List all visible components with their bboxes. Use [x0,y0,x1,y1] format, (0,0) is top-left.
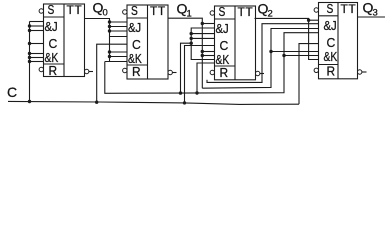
svg-text:S: S [327,1,334,16]
svg-text:&J: &J [324,18,337,33]
wire U1 J1 stub [30,21,44,23]
wire U3 K3 stub tied to Q0 line [197,63,215,93]
wire U1 K1 stub [30,53,44,55]
U3 inverted output circle [256,71,260,75]
C clock bus [8,101,299,104]
wire U2 clock riser [97,44,127,102]
wire Q1 long run under U3 to J3 of U4 [202,29,318,89]
svg-text:R: R [49,63,58,78]
flip-flop U1 box [44,4,85,77]
svg-text:1: 1 [187,9,192,20]
wire U2 K3 stub from Q0 [105,61,127,63]
wire U3 K extra stub from Q1 [202,51,214,53]
node bus corner tee [183,101,186,104]
U2 S inversion circle [123,10,127,14]
svg-text:C: C [327,35,336,50]
svg-text:S: S [219,4,226,19]
wire U1 J3 stub [30,30,44,32]
U2 inverted output circle [168,70,172,74]
wire U4 K1 stub from Q1 riser [271,51,319,53]
wire Q1 from U2 output [168,18,202,88]
svg-text:C: C [220,38,229,53]
U3 R inversion circle [210,70,214,74]
svg-text:R: R [327,63,336,78]
node gap2 Q0 riser tee [179,91,182,94]
svg-text:&J: &J [216,21,229,36]
svg-text:TT: TT [67,3,83,17]
wire U3 J2 stub from Q0 [191,28,214,43]
U4 inverted output circle [358,70,362,74]
wire U1 J2 stub [30,25,44,27]
wire Q0 from U1 output [85,19,110,62]
svg-text:R: R [132,64,141,79]
node U1 K1 [28,52,31,55]
svg-text:2: 2 [268,9,273,20]
wire from U3 inverted output down to J2 line [207,24,319,83]
wire U1 inverted output stub [89,71,93,73]
wire U3 J3 stub from Q0 [191,33,214,35]
wire Q0 riser in gap2 [181,43,192,93]
node U1 J2 [28,24,31,27]
node U1 C [28,42,31,45]
wire Q0 drop and long run under U2, U3 to J4 of U4 [105,33,319,94]
U1 inverted output circle [85,69,89,73]
svg-text:&J: &J [45,19,58,34]
wire U1 K3 stub [30,61,44,63]
U3 S inversion circle [210,11,214,15]
node gap2 Q0 branch [190,42,193,45]
U2 R inversion circle [123,68,127,72]
svg-text:TT: TT [150,4,166,18]
U4 R inversion circle [314,68,318,72]
svg-text:&J: &J [128,20,141,35]
wire U4 K2 stub from Q0 riser [284,55,319,57]
node U3 J1 [201,22,204,25]
wire U3 K1 stub from Q1 [202,55,214,57]
node U2 J2 [108,25,111,28]
wire U1 input bus vertical (J,K,C tied to C bus) [29,22,31,102]
node U3 K3 tie to Q0 line [195,91,198,94]
node U3 Kx [201,50,204,53]
node U3 K1 [201,54,204,57]
flip-flop U3 box [215,6,256,80]
svg-text:TT: TT [238,5,254,19]
node U2 clock tap [95,101,98,104]
node U1 K3 [28,60,31,63]
wire Q2 from U3 output [255,18,319,59]
node U1 J3 [28,29,31,32]
svg-text:3: 3 [373,8,378,19]
svg-text:TT: TT [341,2,357,16]
wire U2 J2 stub from Q0 [110,26,128,28]
svg-text:0: 0 [103,8,108,19]
node U2 J1 [108,20,111,23]
svg-text:S: S [131,3,138,18]
wire U1 K2 stub [30,57,44,59]
node U3 J4 [190,37,193,40]
svg-text:C: C [7,84,17,100]
U1 R inversion circle [39,67,43,71]
node U2 J3 [108,29,111,32]
node U1 K2 [28,56,31,59]
svg-text:R: R [220,65,229,80]
wire U4 clock riser from C bus end [299,44,319,105]
svg-text:C: C [132,37,141,52]
U1 S inversion circle [39,9,43,13]
node U3 J3 tap [190,32,193,35]
svg-text:C: C [49,36,58,51]
node U4 J1 [307,19,310,22]
wire U3 inverted output stub [260,73,264,75]
node U1 bus join [28,100,31,103]
wire U3 J4 stub from Q0 riser [191,37,214,39]
svg-text:S: S [48,2,55,17]
wire U3 K2 stub from Q0 [191,43,214,59]
wire Q3 from U4 output [358,16,385,18]
flip-flop U4 box [319,3,358,79]
wire U2 J4 stub from Q0 [110,36,128,38]
wire U3 J1 stub from Q1 [202,23,214,25]
wire U2 K2 stub from Q0 [110,56,128,58]
wire U4 inverted output stub [362,71,367,73]
node U4 K1 tap [269,50,272,53]
node U2 K1 [108,50,111,53]
svg-text:&K: &K [324,49,338,64]
wire U2 inverted output stub [172,72,176,74]
wire U1 C input stub [30,43,44,45]
wire U2 K1 stub from Q0 [110,51,128,53]
wire U3 clock riser from bus corner [185,46,215,103]
wire U2 J3 stub from Q0 [110,30,128,32]
wire U2 J1 stub from Q0 [110,21,128,23]
node U2 K2 [108,55,111,58]
node U4 K2 tap [282,54,285,57]
U4 S inversion circle [314,8,318,12]
flip-flop U2 box [127,5,168,79]
wire U4 J1 stub from Q2 [309,19,319,21]
